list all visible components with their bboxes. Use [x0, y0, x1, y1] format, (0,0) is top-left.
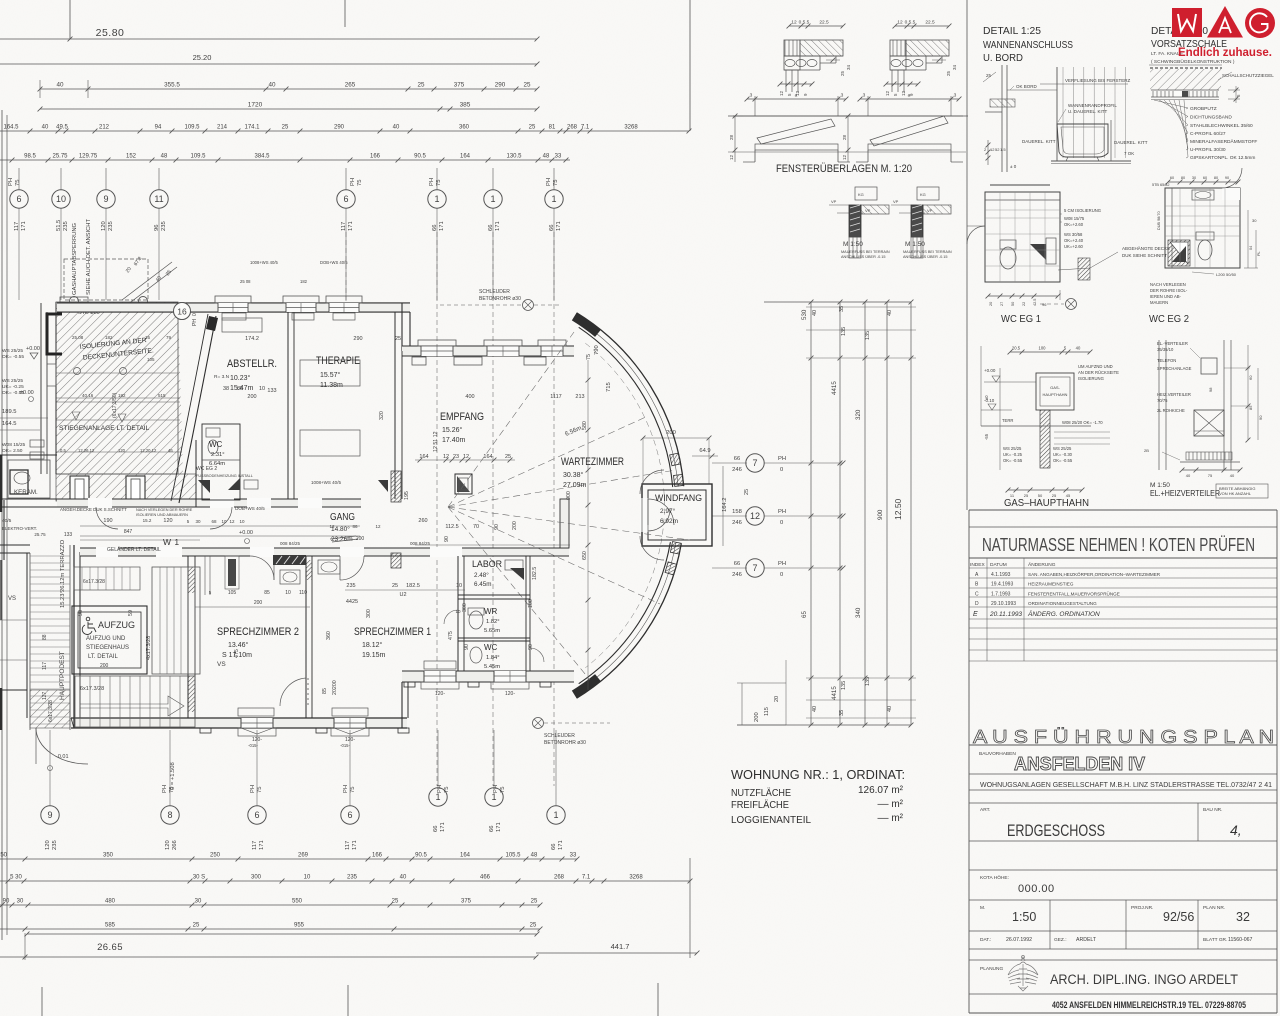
svg-text:25: 25 [417, 82, 425, 89]
svg-text:85: 85 [237, 386, 243, 392]
svg-text:27.09m: 27.09m [563, 482, 587, 489]
svg-text:75: 75 [444, 787, 450, 793]
svg-text:W08 15/75: W08 15/75 [1064, 216, 1085, 221]
svg-text:480: 480 [105, 899, 116, 905]
svg-text:30: 30 [1192, 176, 1196, 180]
svg-text:166: 166 [370, 154, 381, 160]
svg-text:384.5: 384.5 [254, 154, 270, 160]
svg-text:±0: ±0 [984, 395, 989, 400]
svg-text:NATURMASSE NEHMEN ! KOTEN PRÜ: NATURMASSE NEHMEN ! KOTEN PRÜFEN [982, 534, 1255, 555]
svg-text:235: 235 [346, 583, 355, 589]
svg-text:30 S: 30 S [193, 875, 205, 881]
svg-text:715: 715 [606, 382, 612, 392]
svg-text:375: 375 [454, 82, 465, 89]
svg-text:117: 117 [345, 841, 351, 850]
svg-text:25.75: 25.75 [34, 532, 46, 537]
svg-text:88: 88 [42, 634, 48, 640]
axis verticals through plan [436, 232, 438, 786]
svg-text:HEIZRAUMEINSTIEG: HEIZRAUMEINSTIEG [1028, 582, 1074, 587]
svg-text:SCHLEUDER: SCHLEUDER [544, 733, 575, 739]
svg-text:13.46°: 13.46° [228, 641, 249, 649]
svg-text:441.7: 441.7 [611, 942, 630, 951]
doors from gang to rooms [250, 556, 274, 580]
vorsatzschale layer band [1151, 89, 1219, 91]
svg-text:ÄNDERUNG: ÄNDERUNG [1028, 561, 1056, 568]
svg-text:ANSFELDEN IV: ANSFELDEN IV [1014, 754, 1145, 774]
svg-text:38: 38 [223, 386, 229, 392]
svg-text:30: 30 [195, 519, 201, 524]
svg-text:75: 75 [15, 180, 21, 186]
svg-text:90: 90 [464, 644, 470, 650]
svg-text:265: 265 [345, 82, 356, 89]
svg-text:ABSTELLR.: ABSTELLR. [227, 358, 277, 370]
svg-text:a: a [795, 94, 798, 99]
svg-text:WINDFANG: WINDFANG [655, 493, 702, 503]
svg-text:96: 96 [1042, 302, 1047, 307]
svg-text:120-: 120- [435, 691, 445, 697]
svg-text:3268: 3268 [629, 875, 643, 881]
svg-text:290: 290 [495, 82, 506, 89]
axis bubble 16 [174, 303, 191, 320]
el bottom slab [1186, 452, 1232, 460]
svg-text:580: 580 [582, 421, 588, 430]
svg-text:25: 25 [193, 923, 200, 929]
svg-text:5 30: 5 30 [10, 875, 22, 881]
svg-text:25: 25 [392, 899, 399, 905]
el dims right [1247, 345, 1249, 440]
svg-text:126.07 m²: 126.07 m² [858, 785, 904, 796]
heiz box with X [1194, 410, 1224, 436]
svg-text:40: 40 [56, 82, 64, 89]
svg-text:12: 12 [885, 90, 890, 96]
svg-text:246: 246 [732, 467, 742, 473]
axis bubble 9 [41, 806, 59, 824]
svg-text:90: 90 [3, 899, 10, 905]
wr fixtures [469, 611, 483, 629]
svg-text:20.5: 20.5 [1012, 346, 1021, 351]
window sills above right wing windows [418, 340, 456, 346]
svg-text:90: 90 [444, 536, 450, 542]
svg-text:48: 48 [161, 154, 168, 160]
svg-text:GEZ.:: GEZ.: [1054, 937, 1067, 943]
svg-text:25: 25 [531, 899, 538, 905]
svg-text:200: 200 [100, 663, 109, 669]
svg-text:200: 200 [356, 536, 365, 542]
svg-text:90: 90 [1258, 415, 1263, 420]
svg-text:12: 12 [901, 90, 906, 96]
svg-text:189.5: 189.5 [2, 409, 17, 415]
svg-text:115: 115 [764, 707, 770, 716]
svg-text:R= 3.N: R= 3.N [214, 374, 230, 380]
svg-text:6: 6 [343, 194, 348, 204]
windfang doors [648, 499, 674, 525]
left wall lower [73, 545, 75, 728]
dimension row 40/355.5/40/265/25/290/25/375/25 [40, 88, 537, 90]
svg-text:164: 164 [460, 853, 471, 859]
svg-text:17.40m: 17.40m [442, 437, 466, 444]
svg-text:174.1: 174.1 [244, 125, 260, 131]
svg-text:SPRECHANLAGE: SPRECHANLAGE [1157, 366, 1192, 371]
line above 2665 [27, 933, 537, 935]
svg-text:33: 33 [555, 154, 562, 160]
svg-text:7.1: 7.1 [582, 875, 591, 881]
stair flight top of aufzug [74, 567, 140, 590]
svg-text:80: 80 [1181, 176, 1185, 180]
windfang vestibule [642, 484, 712, 546]
svg-text:48: 48 [531, 853, 538, 859]
svg-text:213: 213 [575, 394, 584, 400]
gang north wall [57, 499, 361, 507]
svg-text:9: 9 [47, 810, 52, 820]
svg-text:320: 320 [379, 411, 385, 420]
svg-text:OK=+2.60: OK=+2.60 [1064, 222, 1084, 227]
svg-text:GANG: GANG [330, 512, 355, 523]
aufzug label and wheelchair [82, 617, 96, 634]
svg-text:260: 260 [418, 518, 427, 524]
svg-text:40/5: 40/5 [2, 518, 12, 524]
svg-text:171: 171 [558, 840, 564, 850]
svg-text:SCHALLSCHUTZZIEGEL: SCHALLSCHUTZZIEGEL [1222, 73, 1274, 78]
svg-text:355.5: 355.5 [164, 82, 180, 89]
svg-text:15.26°: 15.26° [442, 426, 463, 434]
svg-text:ANSCHLUSS ÜBER -0.15: ANSCHLUSS ÜBER -0.15 [841, 255, 886, 259]
svg-text:110: 110 [299, 590, 307, 596]
EL+HEIZVERTEILER detail [1158, 340, 1160, 470]
svg-text:182: 182 [105, 335, 113, 340]
lintel detail section [895, 25, 949, 27]
svg-text:105: 105 [228, 590, 237, 596]
svg-text:12: 12 [897, 20, 903, 26]
svg-text:475: 475 [448, 631, 454, 640]
svg-text:300: 300 [251, 875, 262, 881]
abstellr shelf rects [222, 318, 262, 332]
svg-text:C-PROFIL 60/27: C-PROFIL 60/27 [1190, 131, 1226, 137]
svg-text:135: 135 [841, 681, 847, 690]
svg-text:PROJ.NR.: PROJ.NR. [1131, 905, 1153, 911]
svg-text:10: 10 [456, 583, 462, 589]
svg-text:268: 268 [567, 125, 578, 131]
svg-text:171: 171 [348, 221, 354, 231]
dim rows inside gang [80, 525, 360, 527]
svg-text:290: 290 [334, 125, 345, 131]
radiators below top right wall [412, 357, 426, 365]
lintel detail section [789, 25, 843, 27]
svg-text:16: 16 [177, 306, 187, 316]
svg-text:375: 375 [461, 899, 472, 905]
svg-text:90: 90 [528, 644, 534, 650]
svg-text:PLAN NR.: PLAN NR. [1203, 905, 1225, 911]
empfang pier stubs [391, 471, 401, 502]
svg-text:955: 955 [294, 923, 305, 929]
svg-text:12 51 12: 12 51 12 [433, 431, 439, 452]
GAS-HAUPTHAHN detail [1010, 351, 1090, 353]
svg-text:Endlich zuhause.: Endlich zuhause. [1178, 47, 1272, 59]
svg-text:6x17.3/28: 6x17.3/28 [80, 686, 104, 692]
svg-text:171: 171 [439, 221, 445, 231]
bottom dim row 1 [0, 858, 577, 860]
svg-text:25: 25 [529, 125, 536, 131]
svg-text:75: 75 [586, 354, 592, 360]
wannen tile wall [1056, 67, 1058, 161]
svg-text:120: 120 [165, 840, 171, 850]
wall base detail M 1:50 [855, 187, 877, 200]
top wall main (left part) [57, 302, 410, 304]
svg-text:650: 650 [582, 551, 588, 560]
svg-text:FREIFLÄCHE: FREIFLÄCHE [731, 799, 789, 811]
therapie furniture [300, 360, 360, 386]
svg-text:SAN. ANGABEN,HEIZKÖRPER,ORDINA: SAN. ANGABEN,HEIZKÖRPER,ORDINATION–WARTE… [1028, 571, 1161, 577]
svg-text:112.5: 112.5 [445, 524, 458, 530]
svg-text:320: 320 [855, 409, 862, 420]
svg-text:PH: PH [778, 561, 786, 567]
svg-text:15.57°: 15.57° [320, 371, 341, 379]
svg-text:171: 171 [352, 840, 358, 850]
svg-text:0.5.5: 0.5.5 [799, 20, 810, 26]
svg-text:C: C [975, 591, 979, 597]
svg-text:VON HK ANZAHL: VON HK ANZAHL [1219, 491, 1252, 496]
svg-text:4x17.3/28: 4x17.3/28 [146, 636, 152, 660]
svg-text:KOTA HÖHE:: KOTA HÖHE: [980, 874, 1009, 881]
svg-text:4,: 4, [1230, 822, 1242, 838]
svg-text:EMPFANG: EMPFANG [440, 411, 484, 423]
svg-text:EL.-VERTEILER: EL.-VERTEILER [1157, 341, 1188, 346]
svg-text:3: 3 [954, 93, 957, 99]
svg-text:30: 30 [1252, 218, 1257, 223]
sprechzimmer walls [187, 556, 189, 718]
svg-text:BETONROHR ø30: BETONROHR ø30 [544, 740, 586, 746]
svg-text:12: 12 [791, 20, 797, 26]
window sills above top wall windows [215, 296, 251, 303]
svg-text:+0.00: +0.00 [984, 368, 996, 373]
labor/wr/wc rooms [458, 594, 530, 596]
svg-text:200: 200 [247, 394, 256, 400]
svg-text:6x17.3/28: 6x17.3/28 [48, 700, 54, 722]
svg-text:5.65m: 5.65m [484, 628, 500, 634]
betonrohr symbol right panel [1066, 299, 1077, 310]
svg-text:BLATT GR.: BLATT GR. [1203, 937, 1227, 943]
svg-text:400: 400 [465, 394, 474, 400]
svg-text:2.48°: 2.48° [474, 571, 489, 579]
radiators below top left wall [222, 313, 246, 320]
svg-text:385: 385 [460, 102, 471, 109]
svg-text:PLANUNG: PLANUNG [980, 966, 1003, 972]
svg-text:12: 12 [463, 454, 469, 460]
svg-text:UK= -0.25: UK= -0.25 [1003, 452, 1023, 457]
svg-text:40: 40 [393, 125, 400, 131]
svg-text:12: 12 [842, 154, 847, 160]
svg-text:235: 235 [161, 221, 167, 231]
svg-text:TERR: TERR [1002, 418, 1013, 423]
svg-text:246: 246 [732, 520, 742, 526]
revision table [969, 567, 1277, 569]
window sill elevation [856, 115, 963, 117]
svg-text:DAUEREL. KITT: DAUEREL. KITT [1114, 140, 1148, 145]
svg-text:OK= -0.55: OK= -0.55 [1003, 458, 1023, 463]
radiators on bottom wall interior [238, 708, 274, 716]
svg-text:VS: VS [217, 661, 226, 668]
svg-text:0 = +1.508: 0 = +1.508 [170, 762, 176, 790]
svg-text:30: 30 [195, 899, 202, 905]
svg-text:10: 10 [455, 609, 461, 614]
wc room in stair area [202, 424, 240, 500]
svg-text:a: a [908, 94, 911, 99]
svg-text:10: 10 [285, 590, 291, 596]
svg-text:WOHNUGSANLAGEN GESELLSCHAFT M.: WOHNUGSANLAGEN GESELLSCHAFT M.B.H. LINZ … [980, 780, 1272, 789]
svg-text:29.10.1993: 29.10.1993 [991, 601, 1016, 607]
svg-text:(6x17,3/50): (6x17,3/50) [112, 392, 118, 418]
svg-text:12: 12 [779, 90, 784, 96]
svg-text:WS 25/25: WS 25/25 [1003, 446, 1022, 451]
svg-text:42.5: 42.5 [1033, 299, 1037, 306]
naturmasse box [969, 509, 1277, 511]
fixture basin sprech2 top [280, 570, 300, 584]
svg-text:ISOLIERUNG: ISOLIERUNG [1078, 376, 1104, 381]
svg-text:008 84/25: 008 84/25 [280, 541, 301, 546]
svg-text:UK=+2.60: UK=+2.60 [1064, 244, 1084, 249]
svg-text:100: 100 [1039, 346, 1047, 351]
svg-text:49.5: 49.5 [56, 125, 68, 131]
svg-text:90.5: 90.5 [414, 154, 426, 160]
svg-text:15.23°: 15.23° [60, 591, 66, 608]
svg-text:6x17.3/28: 6x17.3/28 [83, 579, 105, 585]
axis bubble 1 [545, 190, 563, 208]
svg-text:190: 190 [103, 518, 112, 524]
svg-text:25: 25 [946, 70, 951, 76]
dashed inner arc [585, 343, 664, 668]
axis bubble 9 [97, 190, 115, 208]
svg-text:25: 25 [282, 125, 289, 131]
axis bubble 7 [746, 559, 764, 577]
svg-text:40 16: 40 16 [82, 393, 94, 398]
wr door arcs [444, 610, 458, 624]
bottom wall left long segment [71, 718, 407, 728]
svg-text:585: 585 [105, 923, 116, 929]
svg-text:WS 30/58: WS 30/58 [1064, 232, 1083, 237]
svg-text:TELEFON: TELEFON [1157, 358, 1176, 363]
svg-text:5TB 65/82: 5TB 65/82 [1152, 183, 1170, 187]
svg-text:40: 40 [1186, 473, 1191, 478]
svg-text:22.5: 22.5 [819, 20, 829, 26]
dimension row 98.5 .. 48,33 [0, 159, 570, 161]
svg-text:80: 80 [1214, 176, 1218, 180]
svg-text:60: 60 [1170, 176, 1174, 180]
svg-text:W 1: W 1 [163, 537, 180, 547]
gang dim chain y545 right [415, 544, 570, 546]
svg-text:20: 20 [774, 696, 780, 702]
svg-text:12: 12 [375, 524, 381, 529]
svg-text:66: 66 [551, 844, 557, 850]
stair column right of aufzug [152, 567, 200, 674]
svg-text:AN DER RÜCKSEITE: AN DER RÜCKSEITE [1078, 370, 1119, 375]
svg-text:1117: 1117 [550, 394, 561, 400]
svg-text:25.80: 25.80 [96, 27, 125, 39]
svg-text:40: 40 [887, 310, 893, 316]
svg-text:ÄNDERG. ORDINATION: ÄNDERG. ORDINATION [1027, 610, 1100, 618]
window sill elevation [743, 115, 850, 117]
vertical dim chain x588 [587, 360, 589, 690]
svg-text:25: 25 [505, 454, 511, 460]
svg-text:135: 135 [841, 327, 847, 336]
svg-text:WS 25/25: WS 25/25 [2, 378, 23, 384]
svg-text:4052 ANSFELDEN HIMMELREICHSTR: 4052 ANSFELDEN HIMMELREICHSTR.19 TEL. 07… [1052, 1000, 1246, 1010]
WC EG 2 plan detail [1165, 188, 1240, 268]
svg-text:35/35/10: 35/35/10 [1157, 347, 1174, 352]
svg-text:75: 75 [1208, 473, 1213, 478]
svg-text:–– m²: –– m² [877, 799, 903, 810]
axis bubble 1 [428, 190, 446, 208]
svg-text:HAUPTHAHN: HAUPTHAHN [1043, 392, 1068, 397]
svg-text:120: 120 [118, 448, 126, 453]
plus circle corridor [245, 539, 250, 544]
wall between stair and abstellr [195, 440, 197, 507]
svg-text:IEREN UND AB-: IEREN UND AB- [1150, 294, 1182, 299]
sight lines dashed from empfang [448, 332, 574, 507]
svg-text:81: 81 [549, 125, 556, 131]
svg-text:75: 75 [500, 787, 506, 793]
svg-text:10: 10 [221, 519, 227, 524]
bottom dim row 4 [0, 928, 540, 930]
svg-text:75: 75 [357, 180, 363, 186]
svg-text:PH: PH [429, 178, 435, 186]
svg-text:-55: -55 [984, 433, 989, 440]
svg-text:25: 25 [840, 70, 845, 76]
svg-text:LABOR: LABOR [472, 559, 502, 570]
axis bubble 7 [746, 454, 764, 472]
svg-text:10: 10 [304, 875, 311, 881]
svg-text:85: 85 [264, 590, 270, 596]
svg-text:32: 32 [1236, 910, 1250, 924]
svg-text:182: 182 [300, 279, 308, 284]
svg-text:GASHAUPTABSPERRUNG: GASHAUPTABSPERRUNG [72, 222, 78, 295]
axis bubble 6 [248, 806, 266, 824]
svg-text:DATUM: DATUM [990, 562, 1007, 568]
axis bubble 16 redraw [174, 303, 191, 320]
panel left border [966, 0, 968, 510]
svg-text:VP: VP [893, 199, 899, 204]
svg-text:200: 200 [512, 521, 518, 530]
svg-text:DAUEREL. KITT: DAUEREL. KITT [1022, 139, 1056, 144]
svg-text:1720: 1720 [248, 102, 263, 109]
wc eg2 top fixture [1192, 190, 1214, 200]
svg-text:300: 300 [366, 609, 372, 618]
svg-text:5 CM ISOLIERUNG: 5 CM ISOLIERUNG [1064, 208, 1101, 213]
svg-text:94: 94 [155, 125, 162, 131]
svg-text:98.5: 98.5 [24, 154, 36, 160]
svg-text:26.65: 26.65 [97, 942, 123, 953]
svg-text:WC: WC [209, 440, 223, 449]
svg-text:117: 117 [252, 841, 258, 850]
svg-text:12: 12 [229, 519, 235, 524]
svg-text:120: 120 [163, 518, 172, 524]
svg-text:235: 235 [347, 875, 358, 881]
svg-text:0.5: 0.5 [60, 448, 66, 453]
dark plumbing wall segment [273, 555, 306, 565]
sill elevation extension lines [728, 115, 968, 117]
svg-text:STIEGENANLAGE LT. DETAIL: STIEGENANLAGE LT. DETAIL [59, 425, 150, 432]
svg-text:( SCHWINGBÜGELKONSTRUKTION ): ( SCHWINGBÜGELKONSTRUKTION ) [1151, 58, 1235, 65]
svg-text:VP: VP [831, 199, 837, 204]
svg-text:182.5: 182.5 [532, 567, 538, 580]
svg-text:U-PROFIL 30/30: U-PROFIL 30/30 [1190, 147, 1226, 153]
svg-text:300: 300 [462, 603, 468, 612]
svg-text:1008+WS 40/5: 1008+WS 40/5 [311, 480, 341, 485]
arc end segments thick [574, 317, 598, 334]
svg-text:GAS–HAUPTHAHN: GAS–HAUPTHAHN [1004, 497, 1089, 509]
svg-text:34: 34 [952, 64, 957, 70]
black angled pier at stair top [206, 316, 218, 331]
svg-text:DER ROHRE ISOL-: DER ROHRE ISOL- [1150, 288, 1188, 293]
wannen dim column left [987, 140, 989, 165]
